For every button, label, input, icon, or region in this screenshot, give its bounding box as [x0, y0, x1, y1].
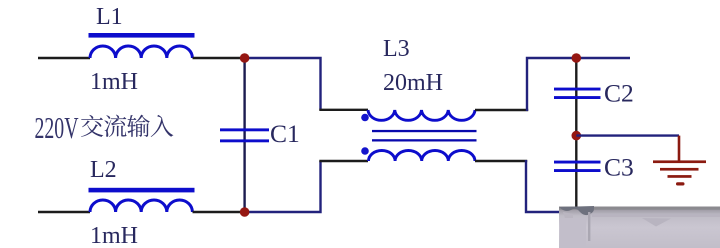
capacitor C3: [554, 161, 601, 172]
phase dot bottom: [361, 147, 369, 155]
node A junction dot: [240, 53, 250, 63]
photo overlay bottom right: [559, 206, 720, 248]
wire riser to node C rail: [527, 58, 630, 111]
wire node A to transformer top: [245, 58, 321, 110]
svg-text:220V: 220V: [35, 110, 79, 145]
node C junction dot: [572, 53, 582, 63]
transformer L3 top winding: [368, 110, 475, 120]
wire L1 to node A: [193, 57, 245, 59]
phase dot top: [361, 114, 369, 122]
svg-text:L1: L1: [96, 4, 123, 30]
svg-text:L2: L2: [90, 157, 117, 183]
svg-text:1mH: 1mH: [90, 223, 138, 248]
wire into transformer top-left: [319, 109, 368, 111]
wire transformer top to node C: [475, 109, 528, 111]
wire top-left input: [38, 57, 90, 59]
svg-text:C1: C1: [270, 119, 300, 148]
wire node D to ground: [576, 134, 679, 136]
node D junction dot: [572, 131, 582, 141]
transformer L3 bottom winding: [369, 151, 475, 162]
svg-text:L3: L3: [383, 36, 410, 62]
capacitor C2: [554, 88, 601, 99]
wire bottom-left input: [38, 211, 90, 213]
wire transformer bottom to bottom rail: [475, 160, 527, 162]
wire L2 to node B: [193, 211, 245, 213]
svg-text:C2: C2: [604, 79, 634, 108]
inductor L2: [89, 188, 195, 212]
svg-text:1mH: 1mH: [90, 69, 138, 95]
wire C2/C3 vertical: [575, 58, 577, 212]
transformer core lines: [372, 130, 477, 142]
wire C1 vertical: [243, 58, 245, 212]
ground: [653, 136, 706, 186]
wire into transformer bottom-left: [319, 160, 368, 162]
inductor L1: [89, 33, 195, 58]
wire node B to transformer bottom: [245, 161, 321, 212]
capacitor C1: [220, 128, 269, 142]
svg-text:20mH: 20mH: [383, 70, 443, 96]
node B junction dot: [240, 207, 250, 217]
svg-text:C3: C3: [604, 153, 634, 182]
wire drop to bottom rail: [526, 160, 576, 212]
